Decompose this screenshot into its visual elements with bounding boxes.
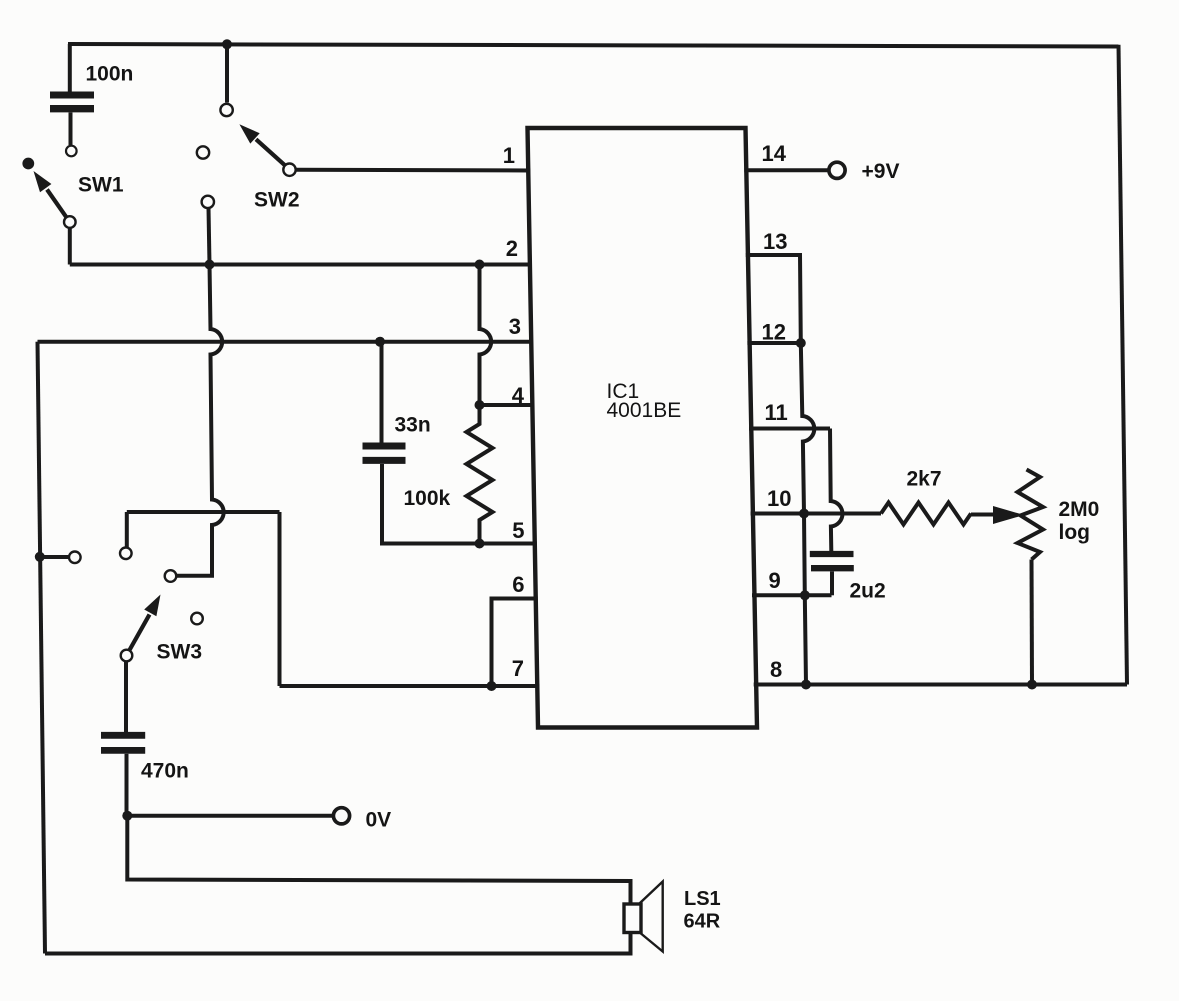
- svg-text:4001BE: 4001BE: [607, 399, 682, 422]
- wire pin14 stub: [744, 168, 829, 172]
- junction pin5: [475, 539, 485, 549]
- wire pin7 rail: [280, 684, 540, 688]
- capacitor 100n: [50, 44, 94, 145]
- wire pin1: [296, 168, 530, 173]
- resistor 100k: [467, 405, 493, 544]
- IC U1 4001BE box: [528, 128, 758, 728]
- junction pin3/33n: [375, 337, 385, 347]
- svg-text:log: log: [1059, 521, 1091, 544]
- contact circle: [69, 552, 81, 564]
- junction pin7/pin6: [487, 681, 497, 691]
- junction pot/pin8: [1027, 680, 1037, 690]
- capacitor 470n: [101, 661, 145, 816]
- svg-text:14: 14: [762, 141, 787, 166]
- wire pin13 stub and right rail with hop over pin11: [746, 255, 815, 685]
- svg-text:0V: 0V: [366, 809, 392, 832]
- svg-text:7: 7: [512, 656, 524, 681]
- svg-text:100n: 100n: [86, 63, 134, 86]
- svg-text:SW1: SW1: [78, 174, 124, 197]
- terminal +9V: [829, 162, 845, 178]
- svg-text:2u2: 2u2: [850, 580, 886, 603]
- wire pin4 stub: [480, 403, 535, 407]
- vertical SW2-lower to SW3 with hops: [177, 265, 224, 576]
- svg-text:470n: 470n: [141, 760, 189, 783]
- junction pin2/branch: [475, 260, 485, 270]
- wire right border: [1119, 45, 1128, 685]
- wire left rail: [38, 342, 46, 954]
- wire pin3 rail: [38, 340, 532, 344]
- svg-text:2M0: 2M0: [1059, 498, 1100, 521]
- wire wiper arrow: [971, 513, 996, 517]
- svg-text:33n: 33n: [395, 414, 431, 437]
- svg-text:100k: 100k: [404, 487, 451, 510]
- wire to speaker top: [127, 816, 630, 904]
- svg-text:13: 13: [763, 229, 787, 254]
- svg-text:3: 3: [509, 314, 521, 339]
- junction 0V: [122, 811, 132, 821]
- switch SW2: [197, 39, 296, 264]
- svg-text:64R: 64R: [684, 911, 721, 933]
- junction left rail stub: [35, 552, 45, 562]
- junction pin4: [475, 400, 485, 410]
- capacitor 2u2: [810, 554, 854, 595]
- wire SW1 to pin2 rail: [68, 228, 72, 265]
- wire pot bottom lead: [1030, 560, 1035, 685]
- wire pin8: [754, 683, 1127, 687]
- svg-text:LS1: LS1: [684, 888, 721, 910]
- wire pin5: [380, 542, 537, 546]
- svg-text:1: 1: [503, 143, 515, 168]
- wire 0V: [127, 814, 333, 818]
- wire pin11 stub: [749, 427, 830, 431]
- svg-text:12: 12: [762, 320, 786, 345]
- wire SW3 horizontal rail y512: [127, 510, 280, 514]
- wire x280 down to pin7: [278, 512, 282, 686]
- junction pin8/rail: [801, 680, 811, 690]
- wire bottom rail: [45, 933, 631, 954]
- svg-text:+9V: +9V: [862, 160, 900, 183]
- capacitor 33n: [363, 342, 406, 544]
- potentiometer 2M0 log track: [1018, 470, 1044, 560]
- svg-text:11: 11: [765, 400, 788, 425]
- svg-text:SW2: SW2: [254, 189, 300, 212]
- junction pin2/SW2: [205, 260, 215, 270]
- wire 2u2 top lead with hop over pin10: [830, 429, 842, 552]
- svg-text:SW3: SW3: [157, 641, 203, 664]
- junction pin9: [800, 590, 810, 600]
- svg-text:2: 2: [506, 236, 518, 261]
- wire pin12 stub: [747, 341, 800, 345]
- wire pin10: [751, 512, 881, 516]
- wire top supply rail: [68, 44, 1119, 47]
- wire pin6 branch: [492, 599, 538, 687]
- svg-text:6: 6: [512, 572, 524, 597]
- svg-text:10: 10: [767, 486, 791, 511]
- junction pin10: [799, 509, 809, 519]
- junction pin12: [796, 338, 806, 348]
- wire stub to contact: [40, 555, 69, 559]
- wire pin2 rail: [70, 263, 530, 267]
- svg-text:2k7: 2k7: [907, 468, 942, 491]
- switch SW1: [22, 146, 76, 228]
- svg-text:5: 5: [512, 518, 524, 543]
- wire pin9: [752, 593, 832, 597]
- switch SW3: [120, 512, 203, 661]
- terminal 0V: [333, 808, 349, 824]
- vertical branch pin2 to pin4 with hop over pin3: [480, 265, 492, 406]
- loudspeaker LS1: [624, 882, 663, 952]
- resistor 2k7: [881, 503, 971, 525]
- svg-text:9: 9: [769, 568, 781, 593]
- svg-text:8: 8: [770, 657, 782, 682]
